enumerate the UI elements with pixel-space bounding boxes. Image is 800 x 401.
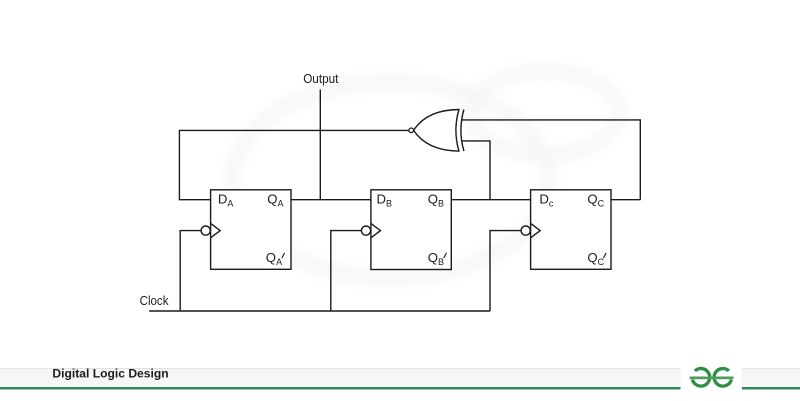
GeeksforGeeks logo (690, 368, 734, 386)
wire: feedback from XNOR output to D_A input (179, 130, 409, 199)
FF B clock inversion bubble (361, 226, 370, 235)
footer bar (0, 369, 800, 387)
XNOR gate U1 (left-facing) (409, 110, 464, 152)
svg-text:Digital Logic Design: Digital Logic Design (52, 367, 168, 381)
wire: XNOR bottom input tap from Q_B net (462, 141, 491, 200)
wire: right loop up to XNOR top input (462, 120, 641, 200)
flip-flop FF B box (371, 190, 451, 270)
wire: clock branch to FF A (180, 231, 201, 311)
FF B clock triangle (371, 223, 381, 237)
pin label Q_C' (587, 250, 606, 267)
FF A clock triangle (211, 223, 221, 237)
footer green rule left (0, 387, 681, 390)
footer separator line (0, 367, 800, 370)
wire: Q_A to D_B (291, 199, 371, 201)
wire: Output stub (319, 90, 321, 200)
FF A clock inversion bubble (201, 226, 210, 235)
svg-text:Clock: Clock (140, 293, 169, 308)
flip-flop FF C box (531, 190, 611, 269)
wire: clock branch to FF C (490, 231, 521, 311)
FF C clock triangle (531, 223, 541, 237)
pin label Q_B' (428, 250, 447, 267)
flip-flop FF A box (211, 190, 291, 269)
wire: clock branch to FF B (331, 231, 362, 311)
footer logo white patch (681, 368, 742, 392)
FF C clock inversion bubble (521, 226, 530, 235)
wire: Q_C to right loop (611, 199, 640, 201)
pin label Q_A' (266, 250, 285, 267)
svg-text:Output: Output (303, 71, 338, 86)
wire: Q_B to D_C (451, 199, 530, 201)
footer green rule right (742, 387, 800, 390)
wire: clock bus (149, 310, 490, 312)
